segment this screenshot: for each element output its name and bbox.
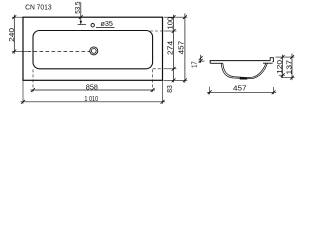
section right extension top [276,56,295,58]
drain outer circle [90,47,98,55]
dim 457 (section) tick right [272,90,276,94]
svg-text:53.5: 53.5 [73,1,82,13]
section rim underside right [263,62,273,64]
svg-text:100: 100 [166,17,175,30]
svg-text:457: 457 [233,83,247,92]
dim 240 tick top [12,15,16,19]
dim 858 tick left [31,88,35,92]
svg-text:274: 274 [166,41,175,55]
dim 137 tick bottom [290,76,294,80]
dim column tick at 100 mark [172,29,176,33]
section rim underside left [210,62,223,64]
dim column 100/274/83 line [173,15,175,83]
bottom extension dashed left (858) [32,69,34,92]
dim 1010 tick left [21,100,25,104]
svg-text:ø35: ø35 [101,19,113,28]
bowl outer wall [221,63,267,78]
svg-text:858: 858 [86,83,98,92]
dim 17 tick top [199,56,203,60]
dim 240 tick bottom [12,50,16,54]
dim 1010 line [21,101,166,103]
right extension line inner-top (dashed inside) [150,30,162,32]
svg-text:240: 240 [7,28,16,42]
dim 120 line [282,55,284,78]
dim 457 (plan) tick top [183,15,187,19]
dim 457 (section) line [207,91,276,93]
section rim left edge [209,60,211,63]
dim 137 line [291,54,293,81]
dim 17 line [200,55,202,63]
dim 53.5 arrow [80,21,82,25]
dim 858 tick right [151,88,155,92]
dim 457 (section) tick left [208,90,212,94]
dim 17 extension [199,60,205,62]
section 457 extension right [273,87,275,94]
dim 457 (plan) tick bottom [183,78,187,82]
right extension line inner-bottom (solid outside) [164,68,177,70]
dim 120 tick top [281,55,285,59]
dim 1010 tick right [161,100,165,104]
svg-text:120: 120 [275,60,284,74]
dim 240 line [13,15,15,54]
section right extension bottom [281,77,295,79]
dim 53.5 tick at top edge [79,15,83,19]
dim 53.5 bar at hole center level [78,24,86,26]
dim 53.5 line [80,2,82,24]
dim 240 extension line bottom [12,50,27,52]
dim 120 tick bottom [281,73,285,77]
drain inner circle [91,49,96,54]
svg-text:17: 17 [192,61,199,68]
inner bowl rounded rectangle (plan view) [33,31,153,69]
right extension line top edge [164,16,188,18]
section right extension mid-bottom [279,74,285,76]
bottom extension right (1010) [162,81,164,104]
right extension line inner-bottom (dashed inside) [153,68,163,70]
drain fitting bump [240,77,247,79]
right extension line bottom edge [164,79,188,81]
section 457 extension left [209,87,211,95]
dashed centerline to drain [28,50,91,52]
right extension line inner-top (solid outside) [164,30,177,32]
svg-text:137: 137 [284,60,293,75]
label ø35 leader line [96,26,115,28]
dim 17 tick bottom [199,59,203,63]
dim 858 line [31,89,156,91]
dim 137 tick top [290,55,294,59]
svg-text:CN 7013: CN 7013 [25,4,52,11]
dim 240 extension line top [12,16,23,18]
svg-text:83: 83 [165,85,174,93]
faucet hole circle [91,24,94,27]
bottom extension dashed right (858) [152,69,154,92]
outer basin rectangle (plan view) [23,17,163,80]
dim column tick at top edge [172,15,176,19]
svg-text:457: 457 [177,41,186,55]
dim column tick at bottom edge [172,78,176,82]
bowl inner wall [223,63,266,77]
svg-text:1 010: 1 010 [84,94,98,103]
dim column tick at 274 mark [172,67,176,71]
section rim top line [210,60,270,62]
section back lip [270,58,273,62]
dim 457 (plan) line [184,13,186,82]
bottom extension left (1010) [22,81,24,104]
